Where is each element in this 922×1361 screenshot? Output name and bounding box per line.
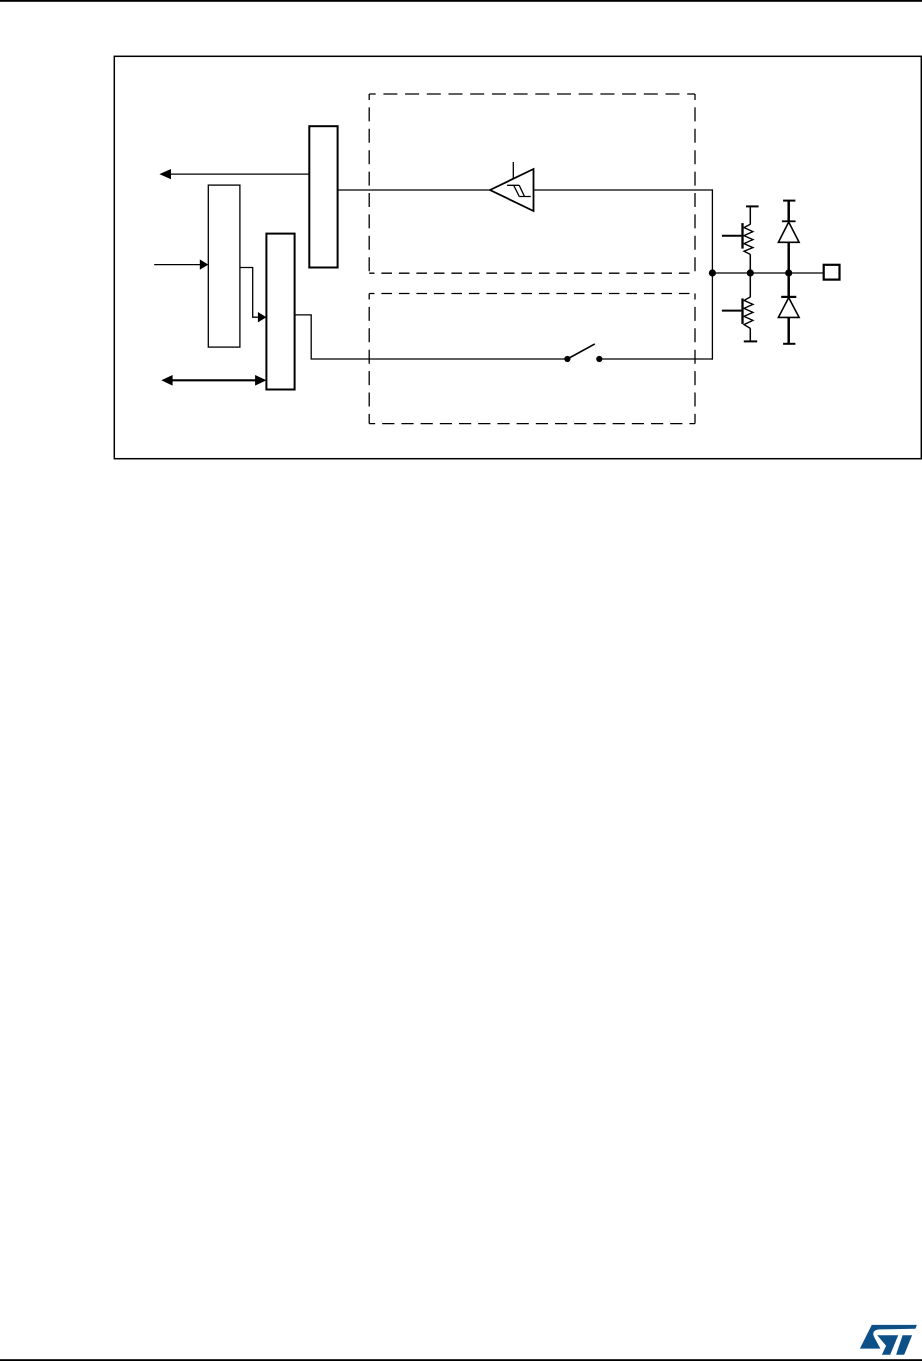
read/write double arrow [161,375,266,386]
wire U1 to Schmitt trigger [338,189,490,191]
wire R2 to VSS [749,328,751,341]
read arrow (to bus, points left) [159,169,309,179]
read/write control block U2 [208,185,240,347]
pull-up gate lead [722,235,742,237]
hysteresis symbol [507,185,531,196]
VDD bar (diodes) [783,200,795,202]
wire node to pull-down resistor [749,273,751,297]
wire U3 to switch [295,315,568,359]
output data register block U3 [266,234,294,390]
VSS bar (diodes) [783,343,795,345]
header rule [0,0,922,2]
node: junction at pull resistors [747,269,754,276]
protection diode D1 [778,222,799,242]
wire VDD to pull-up resistor [749,206,751,224]
pull-up gate bar Q1 [741,223,743,249]
wire node to protection diode D2 [787,273,790,297]
pull-down resistor R2 [744,297,753,328]
vertical wire input/output junction [711,189,713,359]
protection diode D2 cathode bar [781,296,796,298]
node: junction at protection diodes [785,269,792,276]
VSS bar (pull-down) [744,340,757,342]
input data register block U1 [309,126,337,267]
wire R1 to node [749,254,751,273]
VDD bar (pull-up) [746,205,759,207]
ST logo [860,1325,917,1355]
wire D2 to VSS [787,317,790,343]
pull-up resistor R1 [744,224,753,254]
protection diode D2 [778,298,799,318]
write arrow (points right into U2) [154,259,208,269]
wire D1 to node [787,242,790,273]
TTL tick on Schmitt input [512,162,514,179]
output enable switch SW1 [564,344,602,362]
output driver dashed box [369,294,695,424]
wire U2 to U3 with arrow [240,268,267,323]
wire VDD to protection diode D1 [787,201,790,222]
pull-down gate lead [722,310,742,312]
Schmitt trigger U4 [490,162,534,211]
wire Schmitt output to pad column [534,189,714,191]
input driver dashed box [369,94,695,273]
footer rule [0,1359,922,1361]
protection diode D1 cathode bar [782,220,796,222]
wire switch to pad column [599,358,713,360]
pad net horizontal wire [712,272,823,274]
I/O pin pad [824,265,840,280]
pull-down gate bar Q2 [741,298,743,324]
node: junction at vertical wire [709,269,716,276]
figure frame [114,56,921,458]
